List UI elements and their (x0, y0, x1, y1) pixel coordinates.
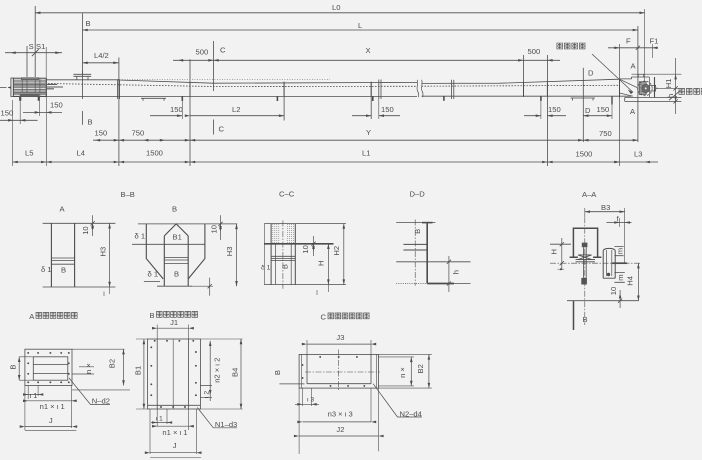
arrowheads top dims (8, 12, 657, 164)
break lines (417, 80, 419, 97)
svg-text:n ×: n × (398, 367, 407, 378)
L4/2 arrows (83, 62, 88, 65)
drive leg 1 (19, 97, 21, 101)
bearing dashed circle (638, 81, 653, 96)
dimension L0 line (35, 12, 645, 14)
hopper outer walls (146, 224, 205, 279)
flange joint 2 (378, 80, 380, 100)
label C型卸料口法兰 (321, 313, 370, 322)
L0 arrows (35, 12, 40, 15)
svg-text:δ 1: δ 1 (261, 265, 271, 272)
svg-text:1500: 1500 (146, 148, 163, 157)
extension leg right (540, 97, 542, 119)
svg-text:10: 10 (609, 287, 618, 295)
dim H CC (327, 244, 329, 285)
screw dashed line right (422, 84, 620, 87)
tube top edge right of break (422, 79, 620, 83)
svg-text:δ 1: δ 1 (135, 231, 146, 240)
dim h DD (448, 256, 450, 292)
bearing cap (636, 74, 645, 77)
tube top edge left (46, 79, 119, 81)
svg-text:B: B (172, 205, 177, 214)
leg stub 4 (443, 96, 445, 101)
hopper joint lines (164, 258, 188, 264)
dim 150 at D (583, 115, 612, 117)
shaft stub left (0, 87, 11, 89)
svg-text:S: S (29, 42, 34, 51)
extension S1 right (45, 47, 47, 78)
base ext top line (632, 73, 682, 75)
bolt cylinder right (603, 251, 615, 278)
extension drive leg1 (19, 101, 21, 124)
H1 dim vertical (675, 58, 677, 114)
dim 150 right part b (547, 115, 566, 117)
150 right arrows (536, 114, 541, 117)
svg-text:C–C: C–C (279, 189, 295, 198)
AA bottom line (567, 300, 639, 302)
extension drive leg2 (38, 101, 40, 116)
150 D arrows (583, 114, 588, 117)
svg-text:500: 500 (196, 48, 209, 57)
flangeA inner rect (33, 357, 68, 380)
duct A top flange line (43, 222, 116, 224)
label 安装基面 (679, 89, 702, 95)
hanger bearing 2 (283, 82, 285, 97)
Y row arrows (95, 139, 100, 142)
center vertical dash-dot (584, 217, 586, 325)
svg-text:150: 150 (1, 109, 14, 118)
extension line right L0 (644, 9, 646, 94)
section line D (582, 68, 584, 142)
svg-text:N1–d3: N1–d3 (215, 420, 237, 429)
leg stub 1 (181, 96, 183, 101)
dimension L4/2 line (83, 62, 119, 64)
svg-text:H3: H3 (99, 247, 108, 257)
bearing housing hatch block (639, 82, 646, 95)
svg-text:B: B (88, 118, 93, 127)
svg-text:ι 1: ι 1 (156, 416, 163, 423)
extension line S tick (26, 46, 28, 77)
feed port stub (73, 71, 91, 81)
J1 dim (157, 327, 188, 329)
svg-text:B: B (9, 365, 18, 370)
dim B flangeC ext (279, 383, 304, 385)
svg-text:δ 1: δ 1 (148, 270, 159, 279)
500 right arrows outside (547, 59, 552, 62)
N-d2 leader (69, 378, 110, 405)
extension leg far right (611, 102, 613, 120)
extension hanger 2 (283, 82, 285, 121)
t2 ticks (200, 386, 212, 398)
F/F1 arrows (614, 47, 619, 50)
CC inner wall lines (275, 244, 291, 285)
J3 dim (307, 343, 371, 345)
hanger rod top nut (582, 243, 588, 248)
svg-text:X: X (366, 46, 371, 55)
n x ticks flangeA (72, 367, 94, 374)
svg-text:1500: 1500 (576, 149, 593, 158)
duct A joint lines (51, 258, 74, 264)
svg-text:L1: L1 (362, 148, 370, 157)
CC left ext (263, 224, 265, 285)
svg-text:n ×: n × (84, 363, 93, 374)
hopper top flange line (138, 223, 237, 225)
CC tube top thick line (264, 243, 333, 245)
svg-text:750: 750 (599, 129, 612, 138)
dimension L line (83, 29, 638, 31)
hanger bearing body (576, 255, 595, 262)
flangeC bolt dots (319, 356, 321, 358)
t1 dim flangeA (28, 386, 38, 400)
flangeB inner walls (157, 339, 188, 409)
extension F1 (651, 44, 653, 58)
CC joint lines (271, 256, 295, 260)
hopper inner walls (164, 236, 188, 286)
svg-text:150: 150 (95, 128, 108, 137)
svg-text:150: 150 (597, 105, 610, 114)
Y row dim line (93, 139, 638, 141)
flange joint 1 (117, 79, 119, 99)
500 left arrows (178, 59, 183, 62)
svg-text:750: 750 (132, 128, 145, 137)
flangeA bolt dots (27, 352, 29, 354)
svg-text:F: F (626, 37, 631, 46)
N2-d4 leader (373, 384, 422, 417)
chute diagonal inside (620, 79, 638, 96)
screw dashed line left (48, 84, 417, 87)
leg stub 3 (372, 96, 374, 101)
t1 dim flangeB (157, 409, 167, 426)
svg-text:C: C (220, 46, 226, 55)
H4 dim (637, 263, 639, 301)
duct A left wall (50, 223, 52, 287)
flangeB outer rect (148, 339, 201, 409)
svg-text:L2: L2 (232, 105, 240, 114)
dim 150 mid-right part (379, 115, 400, 117)
L row dim line (13, 161, 645, 163)
svg-text:n3 × ι 3: n3 × ι 3 (328, 410, 353, 419)
dimension S S1 line (5, 52, 62, 54)
DD tube bottom line (396, 261, 470, 263)
extension line A / L right (637, 26, 639, 142)
svg-text:S1: S1 (36, 42, 45, 51)
flangeA outer rect (25, 349, 72, 385)
J dim flangeA (24, 386, 26, 431)
label A型加料口法兰 (29, 312, 77, 321)
svg-text:B1: B1 (133, 366, 142, 375)
svg-text:B2: B2 (108, 359, 117, 368)
svg-text:L: L (358, 21, 362, 30)
hopper inner peak (164, 224, 188, 236)
DD top line (396, 222, 435, 224)
duct A bottom line (43, 286, 116, 288)
svg-text:J2: J2 (336, 425, 344, 434)
extension hanger 1 (189, 59, 191, 166)
extension hanger 3 (370, 82, 372, 119)
H ref line (550, 243, 571, 245)
DD base dotted (396, 283, 427, 285)
flangeC outer rect (299, 354, 378, 388)
mounting base plate (625, 98, 682, 102)
m dim top (614, 246, 623, 255)
leg stub 5 (540, 96, 542, 101)
X arrows (214, 59, 219, 62)
discharge edge line (619, 79, 621, 98)
svg-text:H3: H3 (225, 246, 234, 256)
svg-text:B–B: B–B (121, 190, 135, 199)
svg-text:L0: L0 (332, 3, 340, 12)
motor body (13, 78, 46, 96)
drive leg 2 (38, 97, 40, 101)
DD base solid thick (427, 283, 454, 285)
motor base band (13, 92, 46, 94)
bearing inner circle (642, 84, 650, 92)
svg-text:B4: B4 (231, 368, 240, 377)
svg-text:H4: H4 (626, 276, 635, 286)
mid row dim 150 left-2 (23, 111, 62, 113)
top view texts (1, 3, 659, 158)
svg-text:h: h (452, 270, 461, 274)
n3 t3 dim (303, 421, 372, 423)
leader line discharge center (592, 54, 633, 92)
B3 dim line (585, 211, 625, 213)
flangeC inner bottom (307, 383, 371, 385)
svg-text:H: H (317, 261, 326, 266)
center ext line (656, 87, 679, 89)
svg-text:C: C (219, 125, 225, 134)
150 left1 arrows (8, 119, 13, 122)
svg-text:150: 150 (170, 105, 183, 114)
svg-text:J: J (49, 416, 53, 425)
X row dim line (173, 59, 560, 61)
150 leg1 arrow (177, 114, 182, 117)
svg-text:H: H (550, 249, 559, 254)
svg-text:ι 2: ι 2 (204, 391, 211, 398)
DD joint lines (403, 244, 427, 250)
CC flange hatch (273, 224, 294, 244)
svg-text:F1: F1 (650, 37, 659, 46)
hanger bearing 3 (370, 82, 372, 97)
svg-text:10: 10 (301, 245, 310, 253)
DD centerline (414, 220, 416, 286)
CC walls (271, 224, 295, 285)
svg-text:H2: H2 (332, 246, 341, 256)
extension drive left edge (12, 100, 14, 166)
flangeC centerlines (305, 371, 380, 373)
tube top hidden dotted (122, 79, 330, 81)
extension hanger 5 (546, 55, 548, 166)
F row dim line (608, 47, 658, 49)
svg-text:A–A: A–A (582, 190, 597, 199)
flangeC inner walls (307, 354, 371, 383)
tube taper edge (119, 80, 417, 83)
svg-text:J3: J3 (336, 333, 344, 342)
saddle support left (141, 98, 166, 101)
flange joint 3 (451, 80, 453, 99)
svg-text:150: 150 (50, 101, 63, 110)
10 dim (619, 290, 621, 308)
mid row dim 150 left-1 (0, 119, 38, 121)
svg-text:500: 500 (528, 47, 541, 56)
svg-text:C: C (321, 313, 327, 322)
svg-text:n1 × ι 1: n1 × ι 1 (162, 428, 187, 437)
svg-text:B: B (413, 229, 422, 234)
svg-text:n1 × ι 1: n1 × ι 1 (40, 402, 65, 411)
J dim flangeB (150, 409, 196, 454)
svg-text:L4: L4 (77, 148, 85, 157)
shelf thick line (612, 262, 627, 264)
svg-text:B3: B3 (601, 203, 610, 212)
hanger bearing 1 (189, 82, 191, 97)
flangeB bolt dots (154, 340, 156, 342)
extension tube start (45, 97, 47, 166)
n1 t1 dim flangeB (152, 425, 192, 427)
hanger rod (584, 247, 587, 278)
dim B flangeA (18, 357, 20, 380)
hopper bottom lines (144, 281, 192, 286)
flangeB center line (172, 339, 174, 409)
svg-text:L3: L3 (634, 149, 642, 158)
motor segment lines (22, 78, 40, 96)
hanger bearing 4 (523, 83, 525, 97)
dim B2 flangeA (123, 349, 125, 385)
B4 dim (240, 339, 242, 409)
svg-text:B: B (273, 370, 282, 375)
hopper ref line (132, 243, 205, 245)
svg-text:B: B (281, 264, 290, 269)
n1 t1 dim line flangeA (25, 400, 76, 402)
flangeB bottom double (148, 404, 201, 406)
L row arrows (13, 161, 18, 164)
f dim line (606, 222, 631, 224)
svg-text:ι 1: ι 1 (30, 391, 38, 400)
dim H3 hopper (236, 224, 238, 286)
DD wall (426, 223, 428, 284)
m dim bottom (614, 272, 624, 282)
motor top bump (22, 78, 39, 80)
L2 arrows (185, 114, 190, 117)
svg-text:D–D: D–D (410, 189, 426, 198)
tube left end plate (45, 79, 47, 98)
L arrows (83, 29, 88, 32)
B2 dim flangeC (428, 354, 430, 388)
extension line flange left (118, 58, 120, 167)
hanger bearing 5 (546, 83, 548, 97)
extension leg tube1 (181, 101, 183, 119)
dim 150 right part a (524, 115, 541, 117)
leg right tall (611, 97, 613, 105)
dim H2 CC (343, 224, 345, 285)
tube bottom line (46, 95, 417, 97)
B3 left ext (584, 208, 586, 217)
leg stub 2 (276, 96, 278, 101)
hopper outlet tick (209, 278, 211, 296)
CC top line (264, 223, 346, 225)
svg-text:150: 150 (548, 105, 561, 114)
section B lower stroke (82, 111, 84, 125)
saddle support right (571, 98, 596, 101)
CC bottom line (264, 284, 346, 286)
label 卸料口中 (557, 43, 585, 49)
t3 dim flangeC (303, 388, 312, 406)
dim L2 (190, 115, 284, 117)
J2 dim (299, 388, 378, 454)
motor fins (13, 80, 46, 91)
section line C lower (213, 120, 215, 135)
dim 10 CC (313, 236, 315, 256)
bearing bracket top (620, 77, 650, 79)
L3 outside arrow line right (645, 161, 658, 163)
svg-text:D: D (585, 106, 591, 115)
hanger rod bottom nut (581, 278, 587, 285)
svg-text:N2–d4: N2–d4 (400, 410, 422, 419)
svg-text:L4/2: L4/2 (94, 51, 109, 60)
svg-text:m: m (616, 248, 625, 254)
flangeA inner lines (33, 365, 68, 374)
svg-text:10: 10 (81, 226, 90, 234)
B3 right ext (624, 208, 626, 263)
extension line left L0 (34, 6, 36, 77)
svg-text:N–d2: N–d2 (92, 396, 110, 405)
label B型加料口法兰 (150, 311, 198, 320)
shaft stub (649, 85, 657, 91)
n2 t2 dim (209, 341, 211, 401)
N1-d3 leader (197, 408, 237, 428)
svg-text:B1: B1 (173, 233, 182, 242)
svg-text:D: D (588, 68, 594, 77)
n x dim flangeC (410, 357, 412, 386)
bracket channel (570, 228, 602, 257)
svg-text:m: m (616, 274, 625, 280)
svg-text:n2 × ι 2: n2 × ι 2 (213, 358, 222, 383)
svg-text:h: h (666, 94, 675, 98)
H dim (561, 238, 563, 270)
dim B1 (143, 339, 145, 409)
svg-text:H1: H1 (664, 79, 673, 89)
svg-text:B: B (61, 266, 66, 275)
dim 150 at leg1 (150, 115, 182, 117)
section line C upper (213, 41, 215, 91)
svg-text:B: B (583, 315, 588, 324)
svg-text:B2: B2 (416, 364, 425, 373)
shaft coupling dashes (47, 84, 63, 88)
extension hanger 4 (522, 55, 524, 97)
svg-text:B: B (86, 19, 91, 28)
svg-text:Y: Y (366, 128, 371, 137)
center horizontal dash-dot (550, 262, 641, 264)
extension discharge edge (619, 44, 621, 166)
svg-text:J1: J1 (170, 318, 178, 327)
flangeC inner left line (301, 354, 303, 388)
duct A right wall (74, 223, 76, 287)
dim 10 hopper (220, 215, 222, 240)
150 left2 arrows (35, 111, 40, 114)
svg-text:J: J (173, 441, 177, 450)
motor shaft band (13, 83, 46, 85)
dim H3 duct A (109, 223, 111, 287)
section line B-B (82, 14, 84, 100)
end plate (654, 77, 656, 98)
motor left end plate (11, 78, 13, 97)
svg-text:10: 10 (210, 225, 219, 233)
150 mid arrows (366, 114, 371, 117)
svg-text:B: B (150, 311, 155, 320)
svg-text:B: B (174, 270, 179, 279)
svg-text:L5: L5 (25, 148, 33, 157)
extension flange mid (378, 99, 380, 119)
AA below pipe line (573, 301, 575, 330)
S arrows (11, 51, 16, 54)
